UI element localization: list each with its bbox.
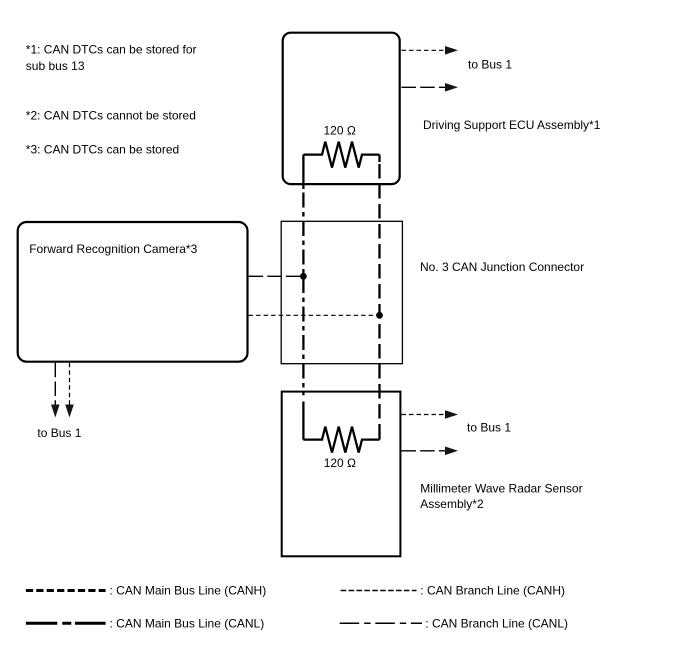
box: Millimeter Wave Radar Sensor Assembly	[282, 392, 401, 557]
wire: CANH main bus vertical (heavy dashed), right leg x=379.5	[378, 155, 380, 440]
wire: CANH branch arrow from ECU to Bus 1 (fine dashed)	[402, 46, 459, 55]
wire: CANH branch arrow from radar sensor to Bus 1 (fine dashed)	[402, 410, 459, 419]
svg-text:*2: CAN DTCs cannot be stored: *2: CAN DTCs cannot be stored	[26, 109, 196, 123]
svg-text:: CAN Branch Line (CANH): : CAN Branch Line (CANH)	[420, 584, 565, 598]
legend key: CAN Branch Line CANL sample	[340, 622, 422, 624]
svg-text:*3: CAN DTCs can be stored: *3: CAN DTCs can be stored	[26, 142, 179, 156]
box: No. 3 CAN Junction Connector	[281, 221, 402, 363]
svg-text:No. 3 CAN Junction Connector: No. 3 CAN Junction Connector	[420, 260, 584, 274]
node: junction dot on CANH main bus	[376, 312, 383, 319]
resistor R1: 120 ohm terminating resistor in ECU	[303, 142, 379, 168]
legend key: CAN Branch Line CANH sample	[341, 590, 417, 592]
svg-text:to Bus 1: to Bus 1	[468, 58, 512, 72]
svg-text:Forward Recognition Camera*3: Forward Recognition Camera*3	[29, 242, 197, 256]
svg-text:to Bus 1: to Bus 1	[37, 426, 81, 440]
wire: CANL main bus vertical (dash-dot), left leg x=303.4	[302, 155, 304, 440]
box: Driving Support ECU Assembly U1	[283, 33, 400, 184]
node: junction dot on CANL main bus	[300, 273, 307, 280]
wire: CANL branch arrow from camera down to Bus 1 (long dashed)	[51, 363, 60, 418]
svg-text:Driving Support ECU Assembly*1: Driving Support ECU Assembly*1	[423, 118, 601, 132]
svg-text:120 Ω: 120 Ω	[324, 456, 356, 470]
svg-text:to Bus 1: to Bus 1	[467, 421, 511, 435]
legend key: CAN Main Bus Line CANH sample	[26, 589, 106, 592]
legend key: CAN Main Bus Line CANL sample	[26, 622, 106, 625]
svg-text:sub bus 13: sub bus 13	[26, 59, 85, 73]
svg-text:: CAN Main Bus Line (CANH): : CAN Main Bus Line (CANH)	[110, 584, 267, 598]
wire: CANL branch arrow from radar sensor to Bus 1 (long dashed)	[402, 447, 459, 456]
svg-text:: CAN Main Bus Line (CANL): : CAN Main Bus Line (CANL)	[110, 616, 265, 630]
wire: CANH branch from camera to junction (fine dashed horizontal)	[249, 314, 380, 316]
svg-text:*1: CAN DTCs can be stored for: *1: CAN DTCs can be stored for	[26, 43, 197, 57]
box: Forward Recognition Camera	[18, 222, 248, 362]
svg-text:: CAN Branch Line (CANL): : CAN Branch Line (CANL)	[425, 616, 568, 630]
svg-text:120 Ω: 120 Ω	[324, 124, 356, 138]
wire: CANL branch arrow from ECU to Bus 1 (long dashed)	[402, 83, 459, 92]
wire: CANH branch arrow from camera down to Bus 1 (fine dashed)	[65, 363, 74, 418]
label: Millimeter Wave Radar Sensor Assembly*2	[420, 482, 582, 511]
svg-text:Assembly*2: Assembly*2	[420, 497, 484, 511]
wire: CANL branch from camera to junction (long dashed horizontal)	[249, 275, 304, 277]
note *1 text	[26, 43, 197, 73]
resistor R2: 120 ohm terminating resistor in radar sensor	[303, 427, 379, 453]
svg-text:Millimeter Wave Radar Sensor: Millimeter Wave Radar Sensor	[420, 482, 582, 496]
